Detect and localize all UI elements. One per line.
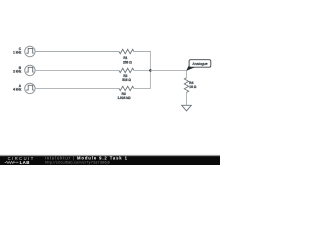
resistor R4: [184, 78, 196, 93]
voltage source B: [13, 65, 35, 75]
svg-text:516 Ω: 516 Ω: [122, 78, 131, 82]
wire R4 to ground: [186, 93, 188, 106]
svg-text:1.024 kΩ: 1.024 kΩ: [117, 96, 131, 100]
svg-text:http://circuitlab.com/c/7y73a7: http://circuitlab.com/c/7y73a7366jb: [45, 161, 110, 165]
footer bar: [0, 155, 220, 165]
svg-text:1 kHz: 1 kHz: [13, 51, 22, 55]
wire node to R4 / flag corner: [150, 69, 186, 71]
svg-text:2 kHz: 2 kHz: [13, 69, 22, 73]
svg-text:Analogue: Analogue: [192, 62, 207, 66]
resistor R3: [117, 86, 133, 100]
wire row1 source C to R1: [35, 51, 119, 53]
wire corner to R4: [186, 70, 188, 77]
footer title text: [45, 155, 128, 164]
voltage source C: [13, 46, 35, 56]
svg-text:256 Ω: 256 Ω: [123, 61, 132, 65]
wire row3 source A to R3: [35, 87, 119, 89]
CircuitLab logo: [5, 156, 35, 165]
net flag Analogue: [186, 60, 211, 71]
bus wire vertical: [149, 52, 151, 89]
ground: [182, 105, 192, 111]
svg-text:LAB: LAB: [20, 160, 30, 165]
voltage source A: [13, 83, 35, 93]
node junction dot: [149, 69, 152, 72]
wire R3 to bus: [134, 87, 151, 89]
resistor R2: [119, 68, 134, 82]
resistor R1: [119, 49, 134, 64]
svg-text:16 Ω: 16 Ω: [189, 85, 196, 89]
wire R1 to bus: [134, 51, 151, 53]
wire row2 source B to R2: [35, 69, 119, 71]
svg-text:4 kHz: 4 kHz: [13, 87, 22, 91]
wire R2 to node: [134, 69, 151, 71]
